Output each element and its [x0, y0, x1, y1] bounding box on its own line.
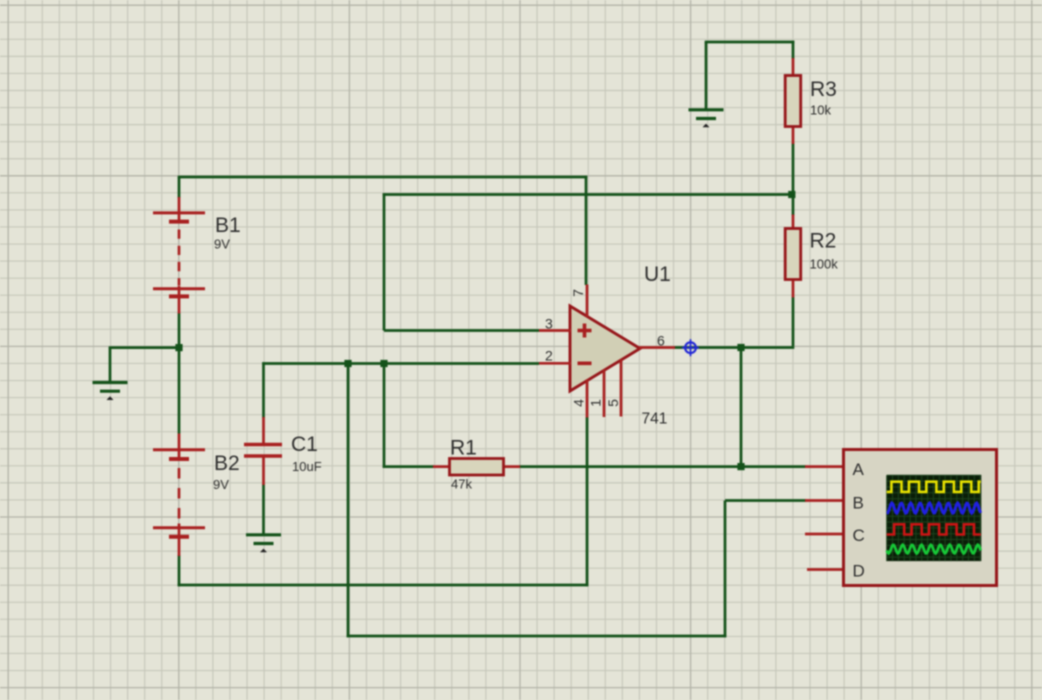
- resistor R1: [450, 459, 504, 476]
- wire B2 top: [178, 346, 181, 433]
- blue origin marker: [682, 339, 699, 356]
- wire pin2 node to R1 vertical: [383, 364, 386, 468]
- node junction B1/B2/gnd: [175, 344, 182, 351]
- battery B2: [153, 434, 205, 557]
- svg-text:100k: 100k: [810, 256, 839, 271]
- ground near B1: [93, 381, 128, 384]
- scope trace C red square: [887, 524, 981, 534]
- wire feedback horizontal pin3 node to R2/R3 junction: [383, 193, 792, 196]
- wire down to left ground: [109, 348, 112, 383]
- scope trace A yellow square: [887, 482, 981, 492]
- svg-text:C: C: [853, 526, 865, 545]
- wire R3 top lead: [792, 41, 795, 59]
- scope pin stub D: [807, 568, 843, 571]
- wire bottom horizontal (pin2 node to scope B): [347, 635, 727, 638]
- scope trace D green sine: [887, 545, 981, 554]
- svg-text:1: 1: [588, 399, 604, 407]
- wire R3 top horizontal to ground: [705, 41, 795, 44]
- wire B1 top: [178, 177, 181, 198]
- svg-text:D: D: [853, 562, 865, 581]
- ground under C1: [246, 533, 281, 536]
- svg-text:10uF: 10uF: [292, 459, 322, 474]
- resistor R3: [785, 76, 801, 127]
- U1 pin 7 stub: [586, 285, 589, 318]
- wire ground stub left of B1: [109, 346, 179, 349]
- wire C1 top vertical: [262, 362, 265, 418]
- wire B2 bottom: [178, 555, 181, 586]
- wire R2 top lead: [792, 195, 795, 216]
- node junction pin2 node left: [344, 360, 351, 367]
- scope pin stub A: [805, 465, 843, 468]
- capacitor C1: [244, 417, 282, 485]
- wire vertical rise to scope B level: [724, 501, 727, 638]
- svg-text:47k: 47k: [451, 477, 472, 492]
- node junction pin2 node right: [380, 360, 387, 367]
- svg-text:741: 741: [642, 411, 668, 428]
- scope pin stub B: [805, 499, 843, 502]
- wire feedback vertical at x=384: [383, 193, 386, 330]
- svg-text:4: 4: [571, 399, 587, 407]
- node junction output node: [737, 344, 744, 351]
- wire C1 bottom to ground: [262, 484, 265, 534]
- svg-text:5: 5: [605, 399, 621, 407]
- wire pin2 node down left vertical: [347, 364, 350, 638]
- scope screen: [887, 475, 982, 561]
- wire B1 bottom to junction: [178, 313, 181, 349]
- scope trace B blue wave: [887, 503, 981, 513]
- R2 bottom lead stub: [792, 279, 795, 298]
- wire horizontal into scope B: [725, 499, 806, 502]
- wire output horizontal: [674, 346, 794, 349]
- wire pin7 vertical drop: [585, 176, 588, 285]
- svg-text:B1: B1: [215, 214, 241, 237]
- U1 pin 2 stub: [539, 362, 571, 365]
- resistor R2: [785, 229, 801, 280]
- svg-text:9V: 9V: [214, 237, 230, 252]
- scope pin stub C: [805, 533, 843, 536]
- svg-text:R2: R2: [810, 229, 837, 252]
- wire R2 bottom lead: [792, 297, 795, 346]
- wire output node down to A-line: [740, 348, 743, 467]
- svg-text:9V: 9V: [213, 477, 229, 492]
- wire R3 bottom lead: [792, 143, 795, 196]
- U1 pin 4 stub: [586, 380, 589, 418]
- svg-text:A: A: [853, 460, 865, 479]
- oscilloscope body: [844, 450, 997, 586]
- U1 pin 1 stub: [603, 370, 606, 418]
- svg-text:7: 7: [570, 289, 586, 297]
- svg-text:10k: 10k: [810, 102, 831, 117]
- wire pin4 vertical: [586, 417, 589, 586]
- svg-text:B: B: [853, 493, 864, 512]
- wire down to top-right ground: [705, 42, 708, 109]
- node junction R2/R3 divider: [788, 191, 795, 198]
- R1 left lead stub: [433, 465, 450, 468]
- U1 pin 6 stub: [639, 346, 675, 349]
- wire R1 right to scope A: [519, 465, 806, 468]
- wire into pin 3: [384, 329, 539, 332]
- wire negative rail horizontal: [178, 584, 589, 587]
- wire pin2 node horizontal to C1: [262, 362, 539, 365]
- U1 pin 5 stub: [620, 360, 623, 417]
- wire B1+ to pin7 node (top horizontal): [178, 176, 588, 179]
- svg-text:3: 3: [545, 315, 553, 331]
- op-amp U1 741: [570, 306, 640, 391]
- svg-text:U1: U1: [644, 263, 671, 286]
- svg-text:B2: B2: [214, 452, 240, 475]
- svg-text:6: 6: [657, 332, 665, 348]
- battery B1: [153, 197, 205, 314]
- node junction output to scope A: [737, 463, 744, 470]
- R3 top lead stub: [792, 58, 795, 76]
- R1 right lead stub: [503, 465, 520, 468]
- ground top right (R3): [689, 108, 724, 111]
- svg-text:2: 2: [545, 347, 553, 363]
- R2 top lead stub: [792, 215, 795, 230]
- svg-text:R1: R1: [450, 436, 477, 459]
- R3 bottom lead stub: [792, 126, 795, 144]
- svg-text:R3: R3: [810, 78, 837, 101]
- wire R1 left lead: [383, 465, 434, 468]
- svg-text:C1: C1: [291, 433, 318, 456]
- U1 pin 3 stub: [539, 329, 571, 332]
